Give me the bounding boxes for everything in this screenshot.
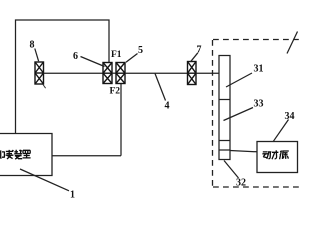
small ink tail below bearing 8 bbox=[43, 85, 46, 89]
svg-text:1: 1 bbox=[70, 190, 75, 201]
wire from gearbox to power source box bbox=[230, 151, 257, 152]
wire from loading box right edge to vertical drop line bbox=[52, 155, 121, 157]
svg-text:34: 34 bbox=[285, 111, 295, 122]
svg-text:5: 5 bbox=[138, 45, 143, 56]
wire shaft 4 from coupling 5 to bearing 7 bbox=[125, 72, 188, 74]
leader for 3 (label cut off at top-right edge) bbox=[287, 32, 298, 54]
label 加载装置 text strokes (hand-drawn CJK) bbox=[0, 150, 31, 159]
wire shaft from bearing 8 to coupling 6 bbox=[44, 72, 104, 74]
svg-text:8: 8 bbox=[30, 40, 35, 51]
svg-text:F1: F1 bbox=[111, 50, 122, 60]
leader for 33 bbox=[224, 108, 254, 121]
coupling 6 (left crossed-box of pair F) bbox=[103, 63, 112, 84]
bearing 8 (crossed-box symbol) bbox=[35, 62, 44, 84]
label 动力源 text strokes (hand-drawn CJK) bbox=[262, 150, 288, 159]
leader for 1 bbox=[20, 169, 69, 191]
wire gap link between couplings 6 and 5 bbox=[112, 72, 116, 74]
svg-text:33: 33 bbox=[254, 99, 264, 110]
wire shaft from bearing 7 into gearbox 31 bbox=[196, 72, 219, 74]
gearbox tall rect 31/33/32 bbox=[219, 56, 230, 160]
svg-text:4: 4 bbox=[165, 101, 170, 112]
leader for 8 bbox=[35, 49, 39, 62]
svg-text:31: 31 bbox=[254, 64, 264, 75]
svg-text:6: 6 bbox=[73, 51, 78, 62]
svg-text:F2: F2 bbox=[110, 87, 121, 97]
dashed enclosure 3 (test unit boundary) bbox=[213, 40, 301, 188]
leader for 5 bbox=[126, 54, 138, 63]
loading device box 1 (加载装置), left side cut off bbox=[0, 134, 52, 176]
leader for 34 bbox=[273, 120, 289, 142]
power source box 34 (动力源) bbox=[257, 142, 298, 173]
coupling 5 (right crossed-box of pair F) bbox=[116, 63, 125, 84]
leader for 7 bbox=[191, 53, 198, 62]
bearing 7 (crossed-box symbol) bbox=[188, 62, 197, 85]
wire vertical drop from coupling 5 bottom bbox=[120, 84, 122, 156]
svg-text:32: 32 bbox=[236, 178, 246, 189]
wire big rectangle loop (left edge down to loading box, top edge, right edge down to coupling 6) bbox=[16, 20, 110, 134]
leader for 32 bbox=[224, 161, 239, 179]
leader for 31 bbox=[226, 73, 252, 87]
leader for 4 bbox=[155, 74, 166, 101]
leader for 6 bbox=[81, 57, 105, 67]
